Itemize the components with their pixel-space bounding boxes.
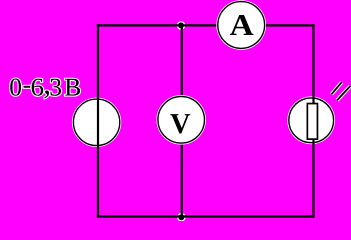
- source GB1 (power supply circle, wire passes through): [72, 98, 121, 147]
- wire bottom: [97, 215, 315, 217]
- lamp EL1 bulb circle: [287, 96, 335, 144]
- lamp ray slash 1: [331, 82, 341, 94]
- voltmeter PV1 circle: [156, 95, 206, 145]
- node bottom junction: [178, 214, 184, 220]
- lamp ray slash 2: [337, 86, 350, 100]
- label 0-6,3 V text: [10, 79, 80, 99]
- wire right: [312, 24, 314, 217]
- wire middle (voltmeter branch): [181, 25, 183, 216]
- label 0-6,3 V halo: [10, 79, 80, 99]
- wire left: [97, 24, 99, 217]
- wire top: [97, 24, 315, 26]
- voltmeter letter V: [170, 114, 190, 133]
- ammeter PA1 circle: [216, 0, 266, 50]
- lamp EL1 filament rectangle: [307, 104, 317, 140]
- node top junction halo: [177, 21, 186, 30]
- node bottom junction halo: [177, 213, 186, 222]
- node top junction: [178, 22, 184, 28]
- ammeter letter A: [230, 15, 253, 35]
